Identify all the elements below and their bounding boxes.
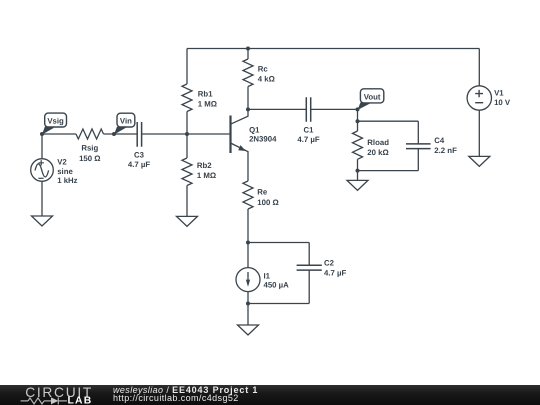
node dot Vout	[356, 107, 360, 111]
node dot base junction	[185, 132, 189, 136]
V2 sine wave	[35, 164, 49, 177]
svg-text:150 Ω: 150 Ω	[79, 154, 100, 163]
svg-text:Q1: Q1	[249, 125, 260, 134]
node dot Rload bottom	[356, 169, 360, 173]
current source I1 circle	[236, 268, 260, 292]
svg-text:C3: C3	[134, 151, 145, 160]
V2 plus sign	[39, 160, 44, 165]
wire Rload bottom lead	[357, 159, 359, 180]
svg-text:4 kΩ: 4 kΩ	[258, 74, 275, 83]
wire C1 to Vout	[311, 108, 358, 110]
transistor Q1 emitter	[231, 143, 249, 181]
svg-text:V2: V2	[57, 158, 67, 167]
svg-text:C1: C1	[304, 125, 315, 134]
svg-text:Rsig: Rsig	[81, 143, 98, 152]
wire V2 to ground	[41, 181, 43, 216]
wire top rail	[187, 48, 479, 50]
wire base net left	[42, 133, 76, 135]
node dot Vin	[112, 132, 116, 136]
wire Rsig to C3	[104, 133, 138, 135]
transistor Q1 collector	[231, 109, 249, 124]
node dot I1 top	[246, 241, 250, 245]
V2 minus sign	[38, 177, 43, 179]
node dot Vsig	[40, 132, 44, 136]
svg-text:C4: C4	[434, 136, 445, 145]
capacitor C1	[306, 97, 310, 122]
svg-text:C2: C2	[324, 259, 335, 268]
wire V1 top lead	[478, 49, 480, 86]
wire Rc bottom lead	[247, 87, 249, 110]
wire Rload top lead	[357, 121, 359, 131]
wire C4 branch top	[358, 121, 419, 144]
resistor Re	[243, 181, 253, 209]
footer text	[113, 386, 258, 403]
capacitor C3	[137, 122, 141, 147]
svg-text:1 kHz: 1 kHz	[57, 176, 77, 185]
svg-text:Rload: Rload	[367, 138, 389, 147]
wire C4 branch bottom	[358, 149, 419, 171]
wire Rc top lead	[247, 49, 249, 60]
svg-text:1 MΩ: 1 MΩ	[197, 171, 216, 180]
svg-text:1 MΩ: 1 MΩ	[198, 99, 217, 108]
flag Vin box	[117, 113, 135, 127]
ground I1	[238, 325, 259, 335]
svg-text:Re: Re	[257, 188, 268, 197]
svg-text:Rc: Rc	[258, 64, 269, 73]
flag Vout box	[360, 89, 383, 103]
wire Rb2 top lead	[186, 134, 188, 158]
V1 minus sign	[475, 102, 483, 104]
svg-text:20 kΩ: 20 kΩ	[367, 148, 388, 157]
Vout flag wedge	[358, 102, 371, 110]
wire I1 top lead	[247, 243, 249, 268]
ground V1	[469, 156, 490, 166]
transistor Q1 base bar	[229, 116, 231, 154]
svg-text:2.2 nF: 2.2 nF	[434, 146, 457, 155]
svg-text:Rb2: Rb2	[197, 161, 212, 170]
node dot Rload top	[356, 119, 360, 123]
wire C3 to base	[142, 133, 230, 135]
I1 arrow shaft	[247, 272, 249, 281]
wire C2 branch top	[248, 243, 309, 266]
voltage source V2 circle	[31, 159, 54, 182]
wire Re to I1 node	[247, 209, 249, 243]
wire Vout down	[357, 109, 359, 121]
capacitor C2	[297, 265, 322, 270]
Vin flag wedge	[114, 127, 126, 135]
wire Rb1 bottom lead	[186, 112, 188, 135]
V1 plus sign	[475, 90, 483, 97]
wire V1 to ground	[478, 110, 480, 156]
wire collector to C1	[248, 108, 306, 110]
resistor Rb2	[182, 158, 192, 186]
I1 arrow head	[246, 280, 250, 287]
svg-text:Vin: Vin	[120, 116, 132, 125]
node dot collector	[246, 107, 250, 111]
resistor Rsig	[76, 129, 104, 139]
ground V2	[32, 216, 53, 226]
wire C2 branch bottom	[248, 270, 309, 303]
svg-text:100 Ω: 100 Ω	[257, 198, 278, 207]
node dot I1 bottom	[246, 302, 250, 306]
resistor Rload	[353, 131, 363, 159]
capacitor C4	[406, 144, 431, 149]
svg-text:LAB: LAB	[68, 396, 93, 405]
node dot top rail	[246, 47, 250, 51]
wire Rb1 top lead	[186, 49, 188, 85]
svg-text:I1: I1	[264, 272, 271, 281]
CircuitLab logo	[18, 385, 118, 405]
svg-text:10 V: 10 V	[494, 98, 511, 107]
svg-text:450 µA: 450 µA	[264, 281, 290, 290]
voltage source V1 circle	[467, 86, 491, 110]
svg-text:4.7 µF: 4.7 µF	[128, 160, 150, 169]
svg-text:Vsig: Vsig	[47, 116, 64, 125]
ground Rload	[347, 180, 368, 190]
Vsig flag wedge	[42, 127, 54, 135]
svg-text:4.7 µF: 4.7 µF	[324, 269, 346, 278]
svg-text:Vout: Vout	[364, 93, 381, 102]
svg-text:V1: V1	[494, 89, 504, 98]
Q1 emitter arrow	[238, 145, 246, 151]
resistor Rc	[243, 59, 253, 87]
ground Rb2	[177, 216, 198, 226]
wire Vsig node to V2	[41, 134, 43, 159]
svg-text:2N3904: 2N3904	[249, 134, 277, 143]
svg-text:Rb1: Rb1	[198, 89, 213, 98]
resistor Rb1	[182, 84, 192, 112]
wire bottom node to ground	[247, 304, 249, 326]
footer bar	[0, 385, 540, 405]
wire Rb2 to ground	[186, 186, 188, 217]
svg-text:4.7 µF: 4.7 µF	[297, 135, 319, 144]
svg-text:sine: sine	[57, 167, 73, 176]
wire I1 to bottom node	[247, 292, 249, 304]
flag Vsig box	[45, 113, 67, 127]
